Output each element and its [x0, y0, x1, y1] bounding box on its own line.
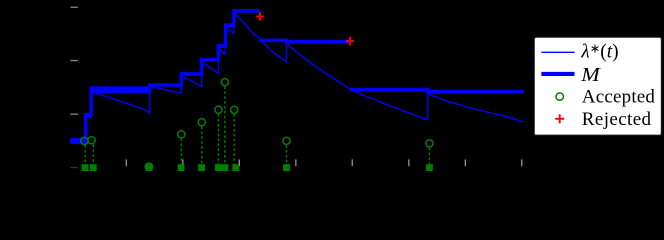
- y-axis tick 1: [71, 114, 78, 115]
- svg-text:λ∗(t): λ∗(t): [580, 42, 618, 63]
- legend thick line sample: [541, 72, 574, 76]
- y-axis tick 0: [71, 167, 78, 168]
- y-axis tick 2: [71, 60, 78, 61]
- M7: [225, 23, 234, 27]
- legend box: [534, 37, 661, 135]
- lambda*(t) thin curve: [70, 13, 524, 142]
- M9: [260, 39, 287, 43]
- accepted event squares on axis: [82, 164, 433, 171]
- svg-text:Accepted: Accepted: [582, 87, 656, 108]
- M12: [428, 90, 524, 94]
- M8: [234, 9, 260, 13]
- y-axis tick 3: [71, 7, 78, 8]
- svg-text:Rejected: Rejected: [582, 109, 652, 130]
- legend thin line sample: [541, 51, 574, 53]
- svg-text:M: M: [580, 64, 601, 86]
- M verticals at accepted events: [84, 113, 87, 144]
- M5: [202, 58, 219, 62]
- M10: [286, 40, 350, 44]
- legend plus sample: [555, 114, 564, 123]
- rejected candidate plus 1: [256, 12, 264, 20]
- M4: [181, 72, 201, 76]
- M6: [218, 44, 225, 48]
- M0: [70, 138, 86, 144]
- M1: [86, 113, 92, 116]
- x-axis ticks: [126, 159, 523, 166]
- M11: [350, 88, 430, 92]
- legend circle sample: [556, 93, 563, 100]
- M3: [150, 83, 182, 86]
- M2: [91, 86, 149, 93]
- rejected candidate plus 2: [346, 37, 354, 45]
- accepted candidate circles: [81, 79, 433, 171]
- M staircase: horizontal bars: [70, 9, 524, 144]
- accepted: green dashed stems: [85, 86, 429, 163]
